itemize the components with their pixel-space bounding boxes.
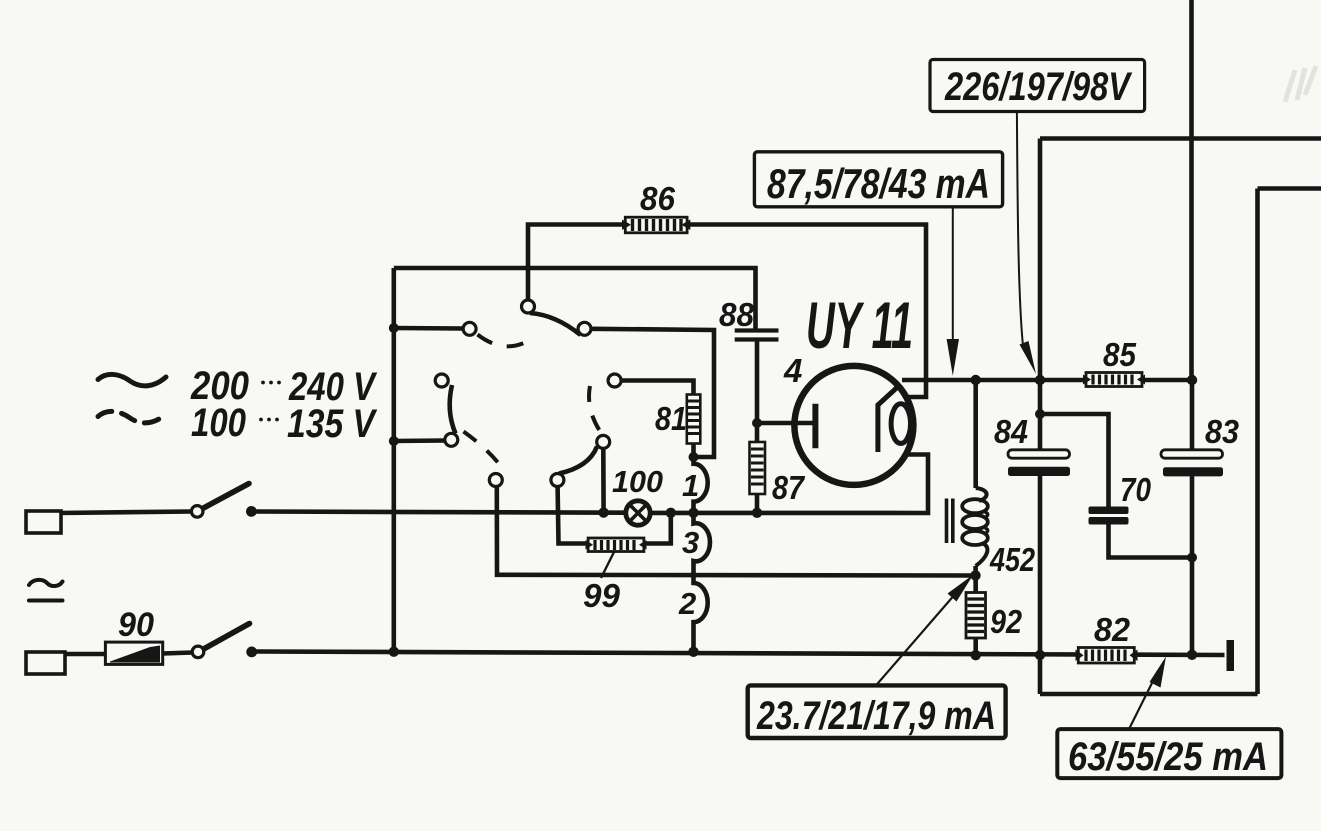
rotary selector contact C2 bbox=[463, 322, 476, 335]
capacitor 88 bbox=[735, 331, 779, 340]
wire resistor 92 bottom lead bbox=[973, 638, 978, 655]
callout box 87,5/78/43 mA bbox=[754, 152, 1002, 207]
ground chassis bar bbox=[1227, 640, 1235, 671]
svg-text:226/197/98V: 226/197/98V bbox=[944, 65, 1133, 109]
wire top right horizontal output bbox=[1040, 136, 1321, 141]
wire contact C9 down and across to coil 452 bbox=[497, 487, 976, 576]
resistor 92 bbox=[966, 593, 986, 639]
wire lower mains plug to fuse bbox=[62, 652, 105, 657]
rotary selector contact C1 bbox=[522, 300, 535, 313]
junction heater pin line / heater line bbox=[688, 508, 698, 518]
resistor 85 bbox=[1083, 373, 1145, 387]
wire bottom ground bus bbox=[252, 652, 1225, 656]
svg-text:UY 11: UY 11 bbox=[806, 288, 913, 362]
switch S1 pivot bbox=[191, 506, 203, 518]
rotary selector contact C6 bbox=[608, 374, 621, 387]
junction left bus / ground bus bbox=[389, 647, 399, 657]
rotary selector contact C9 bbox=[489, 474, 502, 487]
svg-text:85: 85 bbox=[1103, 336, 1137, 373]
capacitor 83 electrolytic bbox=[1161, 450, 1223, 477]
svg-text:90: 90 bbox=[118, 606, 154, 644]
wire contact C7 down to mains bbox=[601, 449, 606, 513]
junction coil 452 tap / wire bbox=[970, 570, 980, 580]
svg-text:100: 100 bbox=[191, 401, 246, 445]
junction capacitor 70 branch bbox=[1035, 409, 1045, 419]
wire capacitor 88 to resistor 87 and tube cathode node bbox=[755, 342, 760, 443]
mains plug prong lower bbox=[26, 652, 65, 674]
wire tube top right stub bbox=[902, 378, 926, 383]
wire heater pin line with hop loops bbox=[694, 457, 710, 652]
wire capacitor 83 bottom lead bbox=[1190, 476, 1195, 655]
junction left bus / contact C2 wire bbox=[389, 323, 399, 333]
svg-text:92: 92 bbox=[990, 603, 1023, 640]
svg-text:4: 4 bbox=[783, 352, 802, 389]
callout box 226/197/98V bbox=[930, 60, 1145, 112]
resistor 86 bbox=[622, 217, 690, 233]
junction right rail / ground bus bbox=[1187, 650, 1197, 660]
wire capacitor 84 bottom to ground bus bbox=[1038, 476, 1043, 695]
wire resistor 86 right to main node bbox=[687, 225, 926, 381]
mains plug prong upper bbox=[26, 511, 61, 533]
AC wave dashed for 100-135V bbox=[98, 411, 166, 422]
svg-text:99: 99 bbox=[583, 577, 621, 614]
junction resistor 87 / heater line bbox=[752, 508, 762, 518]
rotary wiper C1 to C3 bbox=[530, 313, 581, 335]
svg-text:84: 84 bbox=[994, 413, 1028, 450]
tube anode bbox=[878, 388, 897, 453]
rotary selector contact C5 bbox=[445, 433, 458, 446]
wire contact C3 to resistor 81 bottom bbox=[591, 329, 714, 457]
rotary wiper C4 to C5 bbox=[450, 385, 456, 434]
fuse 90 bbox=[105, 642, 162, 664]
lamp 100 bbox=[626, 501, 650, 525]
junction resistor 85 / right rail bbox=[1187, 375, 1197, 385]
rotary selector contact C4 bbox=[435, 374, 448, 387]
junction capacitor 70 return / right rail bbox=[1187, 553, 1197, 563]
rotary wiper C7 to C8 bbox=[559, 447, 597, 474]
svg-text:452: 452 bbox=[989, 541, 1035, 578]
wire contact C8 down to resistor 99 bbox=[558, 487, 589, 544]
svg-text:23.7/21/17,9 mA: 23.7/21/17,9 mA bbox=[756, 694, 996, 738]
wire left filter vertical upper bbox=[1038, 139, 1043, 381]
switch S2 contact dot bbox=[246, 647, 257, 658]
junction resistor 99 lead / heater line bbox=[666, 508, 676, 518]
tube UY11 envelope bbox=[794, 366, 913, 485]
rotary dashed arc C5 to C9 bbox=[464, 432, 502, 468]
wire C1 up and over to resistor 86 bbox=[528, 225, 625, 314]
svg-text:70: 70 bbox=[1120, 471, 1152, 508]
AC approx symbol bbox=[29, 580, 63, 601]
capacitor 70 bbox=[1089, 507, 1129, 525]
wire tube anode step bbox=[904, 380, 926, 397]
svg-text:135 V: 135 V bbox=[287, 402, 378, 446]
wire branch to capacitor 70 bbox=[1040, 414, 1109, 507]
wire main DC line bbox=[926, 378, 1086, 383]
junction coil 452 / DC rail bbox=[971, 375, 981, 385]
svg-text:83: 83 bbox=[1205, 413, 1239, 450]
switch S2 lever bbox=[205, 624, 250, 649]
svg-text:82: 82 bbox=[1094, 611, 1131, 648]
junction resistor 92 / ground bus bbox=[971, 650, 981, 660]
svg-text:81: 81 bbox=[655, 400, 687, 437]
wire contact C2 to bus bbox=[394, 326, 464, 331]
tube filament ellipse bbox=[891, 404, 910, 444]
pointer arrow from 23.7 box to coil node bbox=[876, 575, 973, 686]
AC wave solid for 200-240V bbox=[98, 374, 166, 385]
wire capacitor 83 top lead bbox=[1190, 380, 1195, 451]
wire fuse to switch bbox=[163, 653, 193, 654]
pointer arrow from 63 box to ground bus bbox=[1129, 657, 1166, 730]
wire contact C5 to bus bbox=[394, 438, 445, 443]
svg-text:87: 87 bbox=[772, 469, 805, 506]
rotary dashed arc C6 to C7 bbox=[589, 386, 601, 434]
wire coil 452 top lead bbox=[973, 380, 978, 488]
wire coil 452 bottom node to resistor 92 bbox=[973, 566, 978, 593]
junction filter branch / DC rail bbox=[1035, 375, 1045, 385]
junction capacitor 88 / cathode lead bbox=[752, 418, 762, 428]
svg-text:87,5/78/43 mA: 87,5/78/43 mA bbox=[767, 160, 990, 207]
wire upper mains after switch bbox=[251, 512, 626, 513]
wire resistor 87 bottom lead bbox=[755, 494, 760, 513]
capacitor 84 electrolytic bbox=[1008, 450, 1070, 476]
junction contact C7 lead / heater line bbox=[598, 507, 608, 517]
wire bottom frame bbox=[1040, 692, 1258, 697]
junction capacitor 84 / ground bus bbox=[1035, 650, 1045, 660]
wire resistor 81 bottom lead bbox=[691, 444, 696, 458]
faint page mark top right bbox=[1285, 66, 1316, 102]
wire upper mains line bbox=[58, 512, 192, 514]
svg-text:2: 2 bbox=[678, 586, 696, 621]
wire resistor 85 right lead bbox=[1142, 378, 1192, 383]
rotary selector contact C3 bbox=[578, 322, 591, 335]
callout box 23.7/21/17,9 mA bbox=[748, 685, 1006, 738]
svg-text:100: 100 bbox=[612, 464, 663, 499]
wire vertical from top edge bbox=[1189, 0, 1194, 380]
tube cathode bar bbox=[812, 404, 818, 449]
wire left filter vertical to capacitor 84 bbox=[1038, 380, 1043, 451]
rotary selector contact C7 bbox=[597, 435, 610, 448]
callout box 63/55/25 mA bbox=[1057, 729, 1281, 778]
svg-text:3: 3 bbox=[682, 525, 699, 560]
wire capacitor 70 bottom bbox=[1109, 524, 1193, 558]
wire top-left loop vertical bbox=[391, 268, 396, 652]
svg-text:63/55/25 mA: 63/55/25 mA bbox=[1068, 735, 1268, 779]
switch S2 pivot bbox=[192, 646, 204, 658]
resistor 82 bbox=[1076, 648, 1138, 664]
rotary dashed arc C2 to C1 bbox=[478, 335, 527, 347]
svg-text:88: 88 bbox=[719, 296, 755, 333]
wire right frame vertical bbox=[1255, 189, 1260, 695]
pointer arrow from 226 box bbox=[1017, 112, 1036, 375]
wire upper mains lamp to tube bbox=[650, 455, 928, 514]
wire tube cathode lead bbox=[757, 421, 815, 426]
wire top horizontal to capacitor 88 bbox=[394, 268, 756, 332]
wire right frame output bbox=[1258, 186, 1321, 191]
resistor 81 bbox=[687, 395, 701, 444]
resistor 99 bbox=[586, 538, 647, 552]
resistor 87 bbox=[750, 442, 766, 494]
switch S1 lever bbox=[204, 484, 250, 509]
switch S1 contact dot bbox=[246, 506, 257, 517]
junction left bus / contact C5 wire bbox=[389, 436, 399, 446]
wire resistor 99 to mains junction bbox=[644, 513, 671, 544]
rotary selector contact C8 bbox=[551, 474, 564, 487]
pointer arrow from 87,5 box bbox=[947, 207, 959, 376]
coil 452 with core bbox=[947, 488, 988, 566]
junction resistor 81 / pin line bbox=[689, 452, 699, 462]
junction pin line / ground bus bbox=[688, 647, 698, 657]
leader line for 99 bbox=[601, 552, 614, 578]
svg-text:1: 1 bbox=[682, 468, 699, 503]
svg-text:86: 86 bbox=[640, 180, 676, 217]
wire contact C6 to resistor 81 top bbox=[621, 381, 694, 395]
